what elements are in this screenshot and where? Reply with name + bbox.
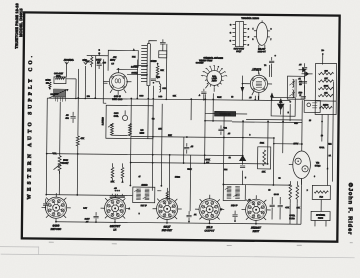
misc value labels row B [152, 118, 324, 145]
svg-text:12: 12 [229, 157, 231, 159]
capacitor C11 [184, 136, 194, 154]
misc value labels row D [83, 166, 328, 218]
svg-text:250: 250 [46, 83, 49, 85]
svg-text:OUTPUT: OUTPUT [204, 229, 214, 232]
label 2.2M rotated [102, 117, 104, 125]
border frame [22, 12, 340, 241]
IF transformer T2 [287, 76, 304, 99]
filter box with electrolytic C9 [271, 97, 295, 116]
top connection of V1 [117, 68, 138, 70]
svg-text:.05: .05 [299, 64, 302, 66]
capacitor C6 [96, 60, 105, 69]
label V2 6J5GT rotated [251, 65, 266, 72]
shield box around osc section [108, 50, 138, 71]
link wires V1 to osc coil [103, 64, 147, 83]
right margin credit John F. Rider [346, 183, 354, 236]
svg-text:470K: 470K [205, 159, 210, 161]
speaker label [289, 215, 295, 220]
trimmer cap C2 [159, 39, 167, 100]
svg-text:4: 4 [327, 168, 328, 170]
svg-text:25Z6-GT: 25Z6-GT [258, 51, 267, 53]
svg-text:500K: 500K [63, 160, 68, 162]
label V1 6A8G DET-OSC [112, 95, 123, 101]
drops to bus right [290, 185, 301, 224]
resistor box R9 [258, 147, 271, 174]
inset tube view right [252, 20, 271, 48]
vertical wires [46, 55, 334, 212]
svg-text:250V: 250V [110, 60, 116, 62]
ground lead [84, 66, 86, 99]
svg-text:SYNC: SYNC [315, 165, 321, 167]
tube socket 6A8G [41, 193, 71, 223]
resistor R3 [76, 136, 84, 146]
diodes left of bank [299, 68, 313, 76]
svg-text:.004: .004 [224, 169, 228, 171]
svg-text:MEG: MEG [140, 133, 145, 135]
svg-text:47: 47 [138, 176, 140, 178]
svg-text:10: 10 [321, 135, 323, 137]
comb ticks below coil [55, 97, 65, 102]
IF transformer T3 box [133, 185, 155, 208]
label 6SK7GT I.F. [110, 224, 121, 232]
svg-text:SPEAKER: SPEAKER [316, 214, 326, 217]
svg-text:.006: .006 [102, 62, 106, 64]
cathode cap C14 [84, 212, 98, 224]
resistor R12 [166, 188, 169, 202]
tube socket 6SQ7 [152, 194, 182, 224]
misc value labels row C [138, 145, 331, 180]
svg-text:3: 3 [249, 134, 250, 136]
svg-text:PAD: PAD [156, 76, 161, 79]
svg-text:TERMINAL VIEWS: TERMINAL VIEWS [241, 17, 259, 20]
rectifier tube oval 0Z4 [289, 143, 311, 185]
svg-text:PLUG: PLUG [318, 218, 324, 220]
cathode arrows below V2 [270, 93, 282, 105]
AVC diode arrow [241, 76, 244, 101]
svg-text:270K: 270K [324, 86, 329, 88]
resistor bank box [315, 63, 337, 114]
bank feed wire [321, 50, 324, 65]
resistor R4 pair [111, 163, 125, 183]
label 6SQ7 2ND DET [161, 225, 173, 233]
svg-text:6.8: 6.8 [152, 118, 155, 120]
filament caps above IF tube [110, 190, 125, 197]
dial drop wires [205, 84, 214, 91]
svg-text:1ST IF: 1ST IF [141, 205, 148, 207]
svg-text:6A8 G: 6A8 G [114, 95, 121, 98]
resistor R13 below line [86, 56, 93, 68]
svg-text:1MEG: 1MEG [323, 104, 329, 106]
B lead double wire [232, 119, 302, 122]
V2 top wire [257, 70, 259, 100]
svg-text:HANK: HANK [45, 79, 51, 82]
volume control R2 [52, 153, 69, 174]
antenna primary coil L1A [54, 77, 66, 84]
tube V1 6A8G converter [103, 68, 131, 95]
resistors under oval [285, 181, 301, 209]
svg-text:MODEL D3615: MODEL D3615 [19, 8, 23, 37]
svg-text:DET-OSC: DET-OSC [51, 228, 62, 231]
svg-text:ASSY: ASSY [212, 79, 218, 82]
svg-text:GANG: GANG [151, 60, 157, 63]
svg-text:PRI: PRI [132, 56, 136, 58]
terminal drop wires [58, 102, 61, 195]
svg-text:456KC: 456KC [141, 185, 148, 187]
oscillator coil L2 tapped ladder [141, 41, 157, 99]
svg-text:.1: .1 [199, 95, 201, 97]
oscillator coil shield box [106, 105, 153, 138]
label 56K [168, 135, 211, 164]
svg-text:©John F. Rider: ©John F. Rider [346, 183, 354, 236]
antenna lead [66, 62, 77, 99]
svg-text:7: 7 [270, 39, 271, 41]
antenna coil labels [54, 72, 64, 78]
tone switch box [215, 111, 236, 116]
page header text TRUETONE PAGE 13-10 [15, 3, 19, 49]
speaker plug box [311, 199, 330, 226]
label 25L6 OUTPUT [204, 225, 214, 233]
antenna terminal A [64, 59, 75, 65]
svg-text:.05: .05 [114, 188, 117, 190]
svg-text:.25: .25 [249, 97, 252, 99]
svg-text:TREB 31: TREB 31 [220, 112, 231, 116]
svg-text:.05: .05 [228, 133, 231, 135]
caps left of bank [298, 63, 307, 98]
trimmer box T2B [304, 100, 320, 112]
svg-text:3: 3 [139, 213, 140, 215]
oval feed wire [273, 143, 302, 145]
cathode cap C16 [232, 211, 237, 222]
inset socket view left [230, 22, 250, 47]
coil L3 bumps [155, 82, 167, 93]
B+ terminal on line [87, 50, 109, 56]
svg-text:1: 1 [253, 28, 254, 30]
svg-text:ANTENNA: ANTENNA [64, 59, 75, 62]
svg-text:74: 74 [264, 65, 266, 67]
page header text MODEL D3615 [19, 8, 23, 37]
label 6A8G DET-OSC [51, 223, 62, 231]
svg-text:8: 8 [271, 28, 272, 30]
label 12SA7 [110, 60, 116, 62]
svg-text:250: 250 [87, 96, 90, 98]
coil tap labels [131, 48, 139, 74]
hank winding cluster [45, 79, 51, 90]
svg-text:2ND IF: 2ND IF [231, 205, 238, 207]
dial label block [196, 56, 224, 64]
svg-text:5: 5 [245, 177, 246, 179]
left margin title WESTERN AUTO SUPPLY CO. [27, 53, 35, 200]
misc value labels row A [50, 93, 251, 99]
ground terminal GND [82, 60, 87, 65]
svg-text:1MEG: 1MEG [175, 177, 181, 179]
svg-text:.02: .02 [248, 199, 251, 201]
antenna secondary coil block [53, 89, 65, 97]
tuning dial fan [201, 65, 227, 87]
svg-text:RECT: RECT [253, 230, 260, 233]
plus cap C13 [269, 54, 277, 67]
tube V2 6J5GT [241, 72, 272, 100]
svg-text:OSC: OSC [114, 113, 119, 115]
svg-text:6SQ7: 6SQ7 [236, 51, 242, 53]
cathode cap C15 [186, 211, 196, 222]
label 6.3V pilot [96, 60, 102, 65]
svg-text:3-30: 3-30 [158, 96, 162, 98]
svg-text:30: 30 [278, 178, 280, 180]
svg-text:47: 47 [220, 209, 222, 211]
svg-text:2: 2 [252, 39, 253, 41]
svg-text:CONT: CONT [63, 163, 69, 165]
svg-text:6: 6 [314, 176, 315, 178]
inset labels right [258, 49, 267, 54]
label 0Z4 RECT [315, 162, 321, 167]
svg-text:30 30: 30 30 [274, 194, 279, 196]
svg-text:2.2MEG: 2.2MEG [102, 117, 104, 125]
tube socket 6SK7GT [100, 194, 130, 224]
IF transformer T4 box [223, 184, 245, 207]
choke box right-bottom [312, 185, 330, 199]
label 25Z6GT RECT [250, 226, 261, 234]
cap near tube1 [43, 199, 48, 211]
electrolytic arrow C10 [240, 151, 246, 168]
junction dots [77, 97, 79, 99]
resistor R5 right of ladder [156, 63, 164, 79]
svg-text:SPKR: SPKR [319, 147, 325, 149]
inset title SPEAKER PLUG [241, 17, 259, 20]
wire pair from C13 [270, 65, 272, 77]
svg-text:330: 330 [324, 71, 327, 73]
svg-text:COIL: COIL [114, 116, 120, 118]
svg-text:.1: .1 [128, 208, 130, 210]
label above tube2 [114, 188, 117, 190]
svg-text:600KC: 600KC [131, 72, 138, 74]
tuning arrow C1A [49, 89, 68, 98]
cap below fan [201, 89, 206, 101]
inset labels left [234, 47, 245, 53]
svg-text:16: 16 [268, 190, 270, 192]
tube socket 25L6 [195, 195, 225, 225]
trimmer box T1 [151, 51, 167, 63]
capacitor C12 [218, 125, 227, 135]
svg-text:SOCKET: SOCKET [196, 62, 205, 64]
padder capacitor [151, 76, 161, 84]
scan artifact lines bottom [0, 239, 355, 258]
capacitor C5 [65, 112, 75, 123]
svg-text:10: 10 [231, 96, 233, 98]
svg-text:46.5V: 46.5V [85, 219, 91, 221]
caps right of rect tube [269, 194, 282, 220]
svg-text:.01: .01 [194, 214, 197, 216]
svg-text:540-1600: 540-1600 [51, 94, 59, 96]
svg-text:15: 15 [309, 120, 311, 122]
svg-text:.01: .01 [298, 78, 301, 80]
svg-text:+ + +: + + + [115, 190, 121, 192]
svg-text:1.5: 1.5 [111, 63, 114, 65]
tube socket 25Z6GT [241, 195, 271, 225]
svg-text:I.F.: I.F. [113, 229, 117, 232]
main bus wires horizontal [46, 98, 302, 224]
svg-text:2ND DET: 2ND DET [161, 229, 173, 232]
svg-text:6J5GT: 6J5GT [251, 67, 261, 71]
label 250V [293, 143, 332, 145]
